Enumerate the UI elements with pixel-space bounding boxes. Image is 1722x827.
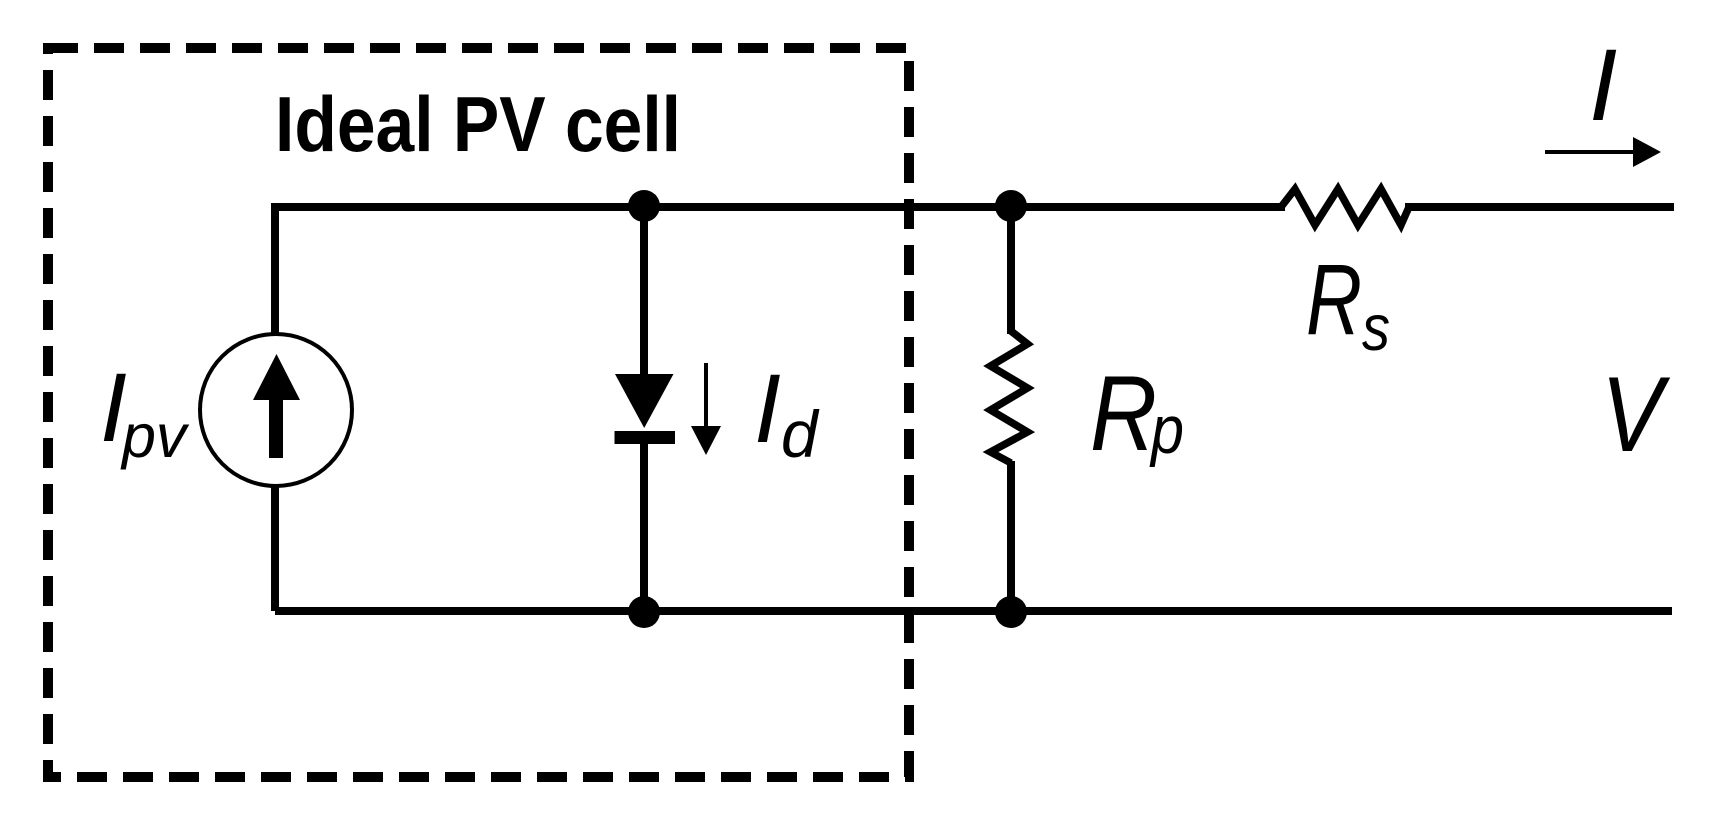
svg-text:V: V [1601, 354, 1670, 474]
svg-text:R: R [1306, 244, 1362, 356]
svg-text:d: d [781, 397, 820, 471]
svg-text:R: R [1090, 353, 1157, 473]
svg-text:p: p [1149, 392, 1184, 468]
svg-text:I: I [754, 354, 781, 463]
svg-text:pv: pv [120, 402, 190, 470]
svg-text:I: I [1589, 28, 1617, 142]
svg-text:Ideal PV cell: Ideal PV cell [275, 80, 681, 168]
svg-text:s: s [1362, 291, 1390, 364]
